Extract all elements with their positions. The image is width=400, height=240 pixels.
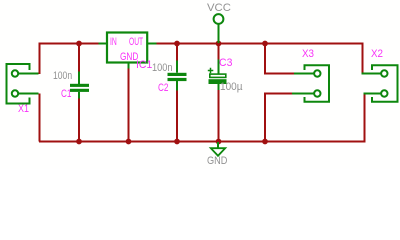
pin label GND of IC1 bbox=[120, 52, 138, 63]
junction on top bus at VCC/C3 bbox=[216, 41, 222, 47]
wire: C2 column top bbox=[176, 43, 178, 61]
connector X2 pin 2 line bbox=[364, 93, 382, 95]
capacitor C3 bottom stub bbox=[218, 84, 220, 90]
junction on bottom bus at GND symbol bbox=[216, 139, 222, 145]
wire: X3 pin2 horizontal bbox=[264, 93, 292, 95]
wire: C1 column top bbox=[78, 43, 80, 73]
capacitor C3 top plate (outline, polarized) bbox=[210, 74, 226, 77]
wire: C2 column bottom bbox=[176, 90, 178, 142]
connector X2 pin 2 circle bbox=[381, 90, 387, 96]
connector X1 pin 2 line bbox=[19, 93, 39, 95]
connector X1 pin 1 line bbox=[19, 73, 39, 75]
value label 100n of C2 bbox=[152, 63, 173, 74]
junction on top bus at C1 bbox=[76, 41, 82, 47]
connector X1 pin 2 circle bbox=[12, 90, 18, 96]
capacitor C2 top stub bbox=[176, 61, 178, 73]
capacitor C1 top stub bbox=[78, 72, 80, 85]
junction on bottom bus at C2 bbox=[174, 139, 180, 145]
capacitor C2 bottom stub bbox=[176, 81, 178, 91]
connector X3 pin 1 line bbox=[294, 73, 314, 75]
wire: X2 pin2 riser from bottom bus bbox=[364, 93, 366, 143]
capacitor C1 bottom plate bbox=[70, 89, 89, 92]
value label 100u of C3 bbox=[220, 82, 243, 93]
wire: X1 pin2 dropper bbox=[39, 94, 41, 142]
wire: top bus left segment (X1 to IC1 IN) bbox=[39, 43, 99, 45]
pin label OUT bbox=[129, 37, 143, 48]
wire: X1 pin1 riser bbox=[39, 43, 41, 75]
wire: X2 pin1 dropper from top bus bbox=[362, 43, 364, 75]
junction on top bus at X3 riser bbox=[262, 41, 268, 47]
name label C3 bbox=[219, 58, 232, 69]
wire: C1 column bottom bbox=[78, 98, 80, 142]
wire: top bus right segment (IC1 OUT to X2) bbox=[157, 43, 362, 45]
capacitor C2 top plate bbox=[168, 73, 187, 76]
connector X1 bracket bbox=[7, 64, 30, 104]
junction on bottom bus at C1 bbox=[76, 139, 82, 145]
wire: X3 dropper to bottom bus bbox=[264, 93, 266, 143]
name label X2 bbox=[371, 49, 383, 60]
value label 100n of C1 bbox=[53, 71, 72, 82]
junction on bottom bus at X3 dropper bbox=[262, 139, 268, 145]
wire: C3 column bottom bbox=[218, 90, 220, 142]
wire: X3 pin1 horizontal bbox=[264, 73, 296, 75]
capacitor C3 plus sign bbox=[208, 68, 214, 74]
name label C2 bbox=[158, 83, 168, 94]
connector X3 pin 1 circle bbox=[314, 70, 320, 76]
capacitor C2 bottom plate bbox=[168, 78, 187, 81]
VCC supply symbol circle bbox=[214, 14, 224, 24]
voltage regulator IC1 box bbox=[107, 33, 147, 63]
connector X2 pin 1 line bbox=[362, 73, 382, 75]
connector X1 pin 1 circle bbox=[12, 70, 18, 76]
IC1 OUT pin line bbox=[148, 43, 157, 45]
junction on bottom bus at IC1 GND bbox=[126, 139, 132, 145]
connector X3 bracket (mirrored) bbox=[305, 65, 330, 102]
VCC pin line bbox=[218, 25, 220, 44]
net label VCC bbox=[207, 3, 231, 14]
capacitor C1 bottom stub bbox=[78, 92, 80, 99]
name label X1 bbox=[18, 104, 29, 115]
connector X3 pin 2 line bbox=[292, 93, 314, 95]
pin label IN bbox=[110, 37, 117, 48]
GND supply symbol stub bbox=[217, 142, 219, 148]
net label GND bbox=[207, 156, 227, 167]
name label IC1 bbox=[136, 60, 152, 71]
GND supply symbol triangle bbox=[211, 148, 225, 156]
IC1 GND pin line bbox=[128, 64, 130, 69]
connector X2 pin 1 circle bbox=[381, 70, 387, 76]
connector X3 pin 2 circle bbox=[314, 90, 320, 96]
wire: C3 column top bbox=[218, 43, 220, 60]
junction on top bus at C2 bbox=[174, 41, 180, 47]
name label C1 bbox=[61, 89, 71, 100]
IC1 IN pin line bbox=[99, 43, 107, 45]
wire: X3 riser from top bus bbox=[264, 43, 266, 74]
capacitor C3 top stub bbox=[218, 60, 220, 74]
wire: bottom bus (GND net) bbox=[39, 141, 365, 143]
wire: IC1 GND pin dropper bbox=[128, 68, 130, 143]
name label X3 bbox=[302, 49, 314, 60]
capacitor C1 top plate bbox=[70, 84, 89, 87]
capacitor C3 bottom plate (filled) bbox=[209, 79, 227, 84]
connector X2 bracket (mirrored) bbox=[372, 65, 398, 102]
